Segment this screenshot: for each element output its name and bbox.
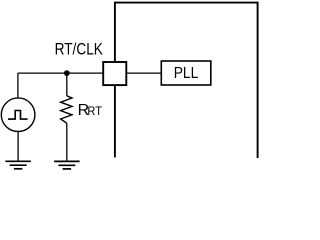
- svg-text:PLL: PLL: [174, 65, 199, 82]
- node dot: [64, 70, 70, 76]
- IC outline: [115, 3, 258, 158]
- wire: pin box to PLL: [126, 72, 161, 74]
- pulse glyph: [8, 111, 28, 120]
- wire: resistor to ground: [66, 123, 68, 161]
- wire: node to resistor: [66, 73, 68, 96]
- wire: source to ground: [17, 132, 19, 162]
- wire: corner down to source: [17, 73, 19, 97]
- pulse source V1: [1, 98, 35, 132]
- ground (resistor): [54, 161, 80, 169]
- pin box: [103, 62, 126, 85]
- svg-text:RT/CLK: RT/CLK: [55, 40, 103, 58]
- svg-text:RT: RT: [87, 104, 102, 118]
- wire: node to pin box: [18, 72, 104, 74]
- IC left edge lower segment: [114, 86, 116, 158]
- ground (source): [5, 161, 31, 169]
- resistor RRT: [61, 96, 72, 123]
- PLL block: [161, 61, 211, 85]
